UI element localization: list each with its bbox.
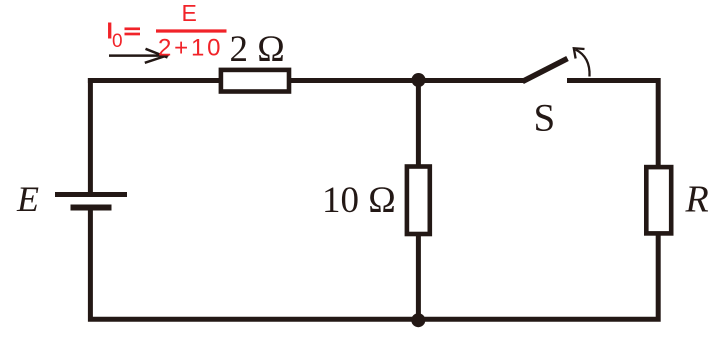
svg-text:E: E: [182, 0, 197, 26]
wire: left vertical upper (E top lead): [88, 78, 93, 194]
node: bottom junction dot: [411, 313, 425, 327]
current arrow I0 lower barb: [145, 55, 169, 63]
battery E long plate: [55, 192, 127, 197]
switch S motion arrow (curved): [576, 50, 590, 77]
svg-text:E: E: [16, 179, 39, 219]
red annotation fraction bar: [156, 29, 227, 32]
resistor 2 ohm (box): [221, 70, 289, 92]
wire: top-right horizontal + right vertical upper (switch to R): [567, 81, 658, 169]
svg-text:R: R: [685, 178, 709, 220]
wire: top-middle horizontal segment (resistor to switch): [287, 78, 524, 83]
resistor R (box): [646, 167, 671, 233]
wire: middle vertical lower (10 ohm to bottom node): [416, 232, 421, 319]
svg-text:2+10: 2+10: [158, 35, 223, 62]
wire: top-left horizontal segment: [88, 78, 222, 83]
wire: middle vertical upper (node to 10 ohm): [416, 80, 421, 168]
switch S motion arrowhead: [574, 48, 585, 58]
resistor 10 ohm (box): [407, 167, 430, 235]
wire: right vertical lower + bottom-right horizontal (R to bottom node): [416, 232, 658, 319]
switch S blade (open): [523, 59, 568, 82]
svg-text:S: S: [534, 97, 556, 140]
svg-text:2 Ω: 2 Ω: [230, 29, 285, 70]
svg-text:10 Ω: 10 Ω: [322, 180, 396, 221]
node: top junction dot: [412, 73, 426, 87]
current arrow I0 shaft: [109, 54, 161, 57]
svg-text:0: 0: [112, 31, 123, 52]
current arrow I0 upper barb: [146, 49, 168, 58]
battery E short plate: [71, 205, 112, 211]
wire: bottom-left horizontal + left vertical lower (node to E): [90, 206, 421, 319]
